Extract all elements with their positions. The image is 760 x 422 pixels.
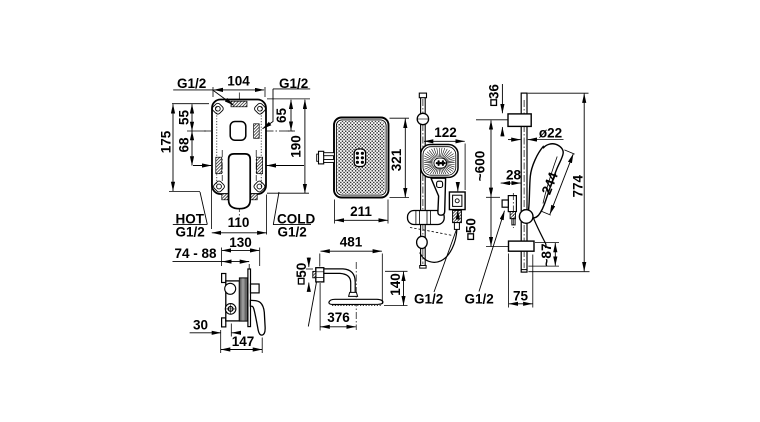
valve upper circle: [225, 283, 236, 294]
bottom-right port hatch: [251, 194, 257, 200]
bottom-left port hatch: [222, 194, 228, 200]
bottom mount bracket: [509, 241, 535, 251]
dim 68: [191, 131, 193, 166]
svg-text:140: 140: [388, 273, 403, 296]
inner dotted body line right: [260, 107, 262, 187]
dim 140: [385, 270, 408, 272]
svg-text:55: 55: [177, 110, 192, 126]
centerline horizontal ports: [212, 165, 266, 167]
svg-text:ø22: ø22: [539, 125, 562, 140]
right mid port thread hatch: [254, 124, 260, 139]
wall flange edge-on: [316, 268, 324, 282]
port centerline right: [255, 150, 257, 181]
dim 147: [220, 330, 222, 353]
svg-text:65: 65: [274, 108, 289, 124]
svg-text:130: 130: [229, 235, 252, 250]
dim 481: [319, 254, 321, 267]
leader line flange: [308, 282, 316, 327]
elbow tab: [502, 200, 508, 207]
center cap nozzles: [356, 152, 364, 164]
hose side: [531, 212, 546, 248]
svg-text:481: 481: [340, 235, 363, 250]
blade inner line: [543, 157, 557, 204]
wall bracket side tab: [317, 151, 335, 164]
dim 110: [211, 169, 213, 229]
holder clamp: [408, 211, 445, 225]
leader G1/2 top-left: [213, 90, 234, 105]
union nut: [453, 210, 462, 222]
bar top cap: [419, 93, 426, 98]
svg-text:104: 104: [227, 74, 250, 89]
head outer shell: [334, 118, 389, 198]
dim 75: [508, 254, 510, 308]
dim 244: [564, 150, 574, 154]
leader G1/2 right: [273, 88, 310, 90]
svg-text:~87: ~87: [539, 244, 554, 267]
cartridge hatched block: [239, 278, 247, 321]
svg-text:147: 147: [232, 334, 255, 349]
inner dotted body line left: [216, 107, 218, 187]
bar bottom cap: [420, 266, 426, 269]
svg-text:190: 190: [289, 135, 304, 158]
svg-text:30: 30: [193, 317, 208, 332]
hand shower handle: [431, 178, 446, 215]
svg-text:G1/2: G1/2: [414, 292, 443, 307]
lever handle: [229, 154, 251, 209]
dim 321: [390, 117, 410, 119]
dim 65: [267, 98, 310, 100]
svg-text:G1/2: G1/2: [177, 76, 206, 91]
dim 30: [190, 332, 213, 334]
dim 130: [221, 248, 223, 267]
svg-text:376: 376: [327, 310, 350, 325]
trim plate outline: [212, 100, 266, 195]
svg-text:G1/2: G1/2: [465, 292, 494, 307]
diverter knob: [230, 122, 246, 141]
svg-text:75: 75: [513, 289, 529, 304]
svg-text:175: 175: [159, 130, 174, 153]
overhead shower profile: [329, 299, 383, 304]
svg-text:~600: ~600: [473, 151, 488, 181]
nozzle dotted line: [332, 305, 381, 307]
dim 104: [212, 87, 214, 97]
dim 175: [172, 103, 209, 105]
spray face dots: [338, 121, 385, 194]
dim o22: [537, 139, 564, 141]
head centerline: [355, 262, 357, 330]
slide bar tube: [521, 93, 527, 272]
svg-text:36: 36: [487, 84, 502, 100]
arm nut: [349, 292, 358, 296]
hand shower head: [421, 145, 458, 178]
port centerline left: [221, 150, 223, 181]
leader G1/2 elbow: [479, 211, 505, 292]
dim square50 union: [457, 185, 459, 192]
svg-text:211: 211: [350, 204, 372, 219]
flow arrow right inlet: [267, 165, 304, 167]
mounting hole top-left: [211, 102, 224, 115]
dim 190: [267, 192, 309, 194]
hose: [420, 230, 457, 263]
dim ~87: [535, 242, 559, 244]
valve top mounting tab: [222, 274, 226, 283]
svg-text:50: 50: [464, 218, 479, 233]
svg-text:110: 110: [228, 215, 250, 230]
centerline horizontal through diverter: [204, 130, 293, 132]
dim 122: [464, 144, 466, 191]
svg-text:74 - 88: 74 - 88: [174, 246, 217, 261]
center cap: [354, 149, 365, 167]
mounting hole bottom-right: [253, 180, 266, 193]
dim square36: [501, 84, 503, 113]
diverter knob side: [251, 284, 260, 293]
dim square50 arm: [308, 258, 310, 267]
valve body: [226, 281, 240, 321]
dim ~600: [476, 119, 508, 121]
svg-text:G1/2: G1/2: [278, 225, 307, 240]
holder pivot ball: [519, 210, 533, 224]
valve bottom mounting tab: [222, 318, 226, 327]
lever handle side: [250, 300, 265, 335]
elbow stub: [512, 219, 515, 225]
leader HOT underline: [173, 223, 208, 225]
head inner rim: [336, 120, 386, 195]
dim 211: [334, 200, 336, 224]
leader COLD underline: [273, 224, 311, 226]
mounting hole bottom-left: [212, 180, 225, 193]
dim 28: [501, 182, 521, 184]
wall elbow body: [508, 196, 516, 212]
hand shower blade: [528, 144, 563, 218]
leader G1/2 handset: [434, 228, 457, 292]
svg-text:G1/2: G1/2: [176, 225, 205, 240]
dim 774: [528, 92, 589, 94]
svg-text:774: 774: [570, 174, 585, 197]
shower arm tube: [324, 269, 355, 293]
elbow nut hatched: [510, 212, 515, 219]
slide bar: [421, 98, 426, 266]
right inlet port thread hatch: [257, 157, 263, 174]
top port thread hatch: [231, 101, 247, 107]
trim plate edge-on: [248, 269, 251, 327]
wall union flange: [449, 192, 465, 210]
svg-text:68: 68: [177, 137, 192, 153]
dim 74-88: [173, 261, 250, 263]
svg-text:G1/2: G1/2: [279, 76, 308, 91]
bar end cap line: [521, 269, 527, 271]
top mount bracket: [508, 114, 531, 127]
svg-text:50: 50: [294, 263, 309, 278]
bar centerline: [523, 100, 525, 268]
left inlet port thread hatch: [216, 157, 222, 174]
svg-text:28: 28: [506, 168, 522, 183]
thread stub: [313, 271, 316, 277]
mounting hole top-right: [253, 102, 266, 115]
top holder knob: [417, 113, 428, 124]
hose dashed loop: [410, 228, 453, 236]
dim 55: [191, 104, 193, 131]
centerline vertical plate: [238, 93, 240, 220]
valve lower circle: [225, 304, 236, 315]
flow arrow left inlet: [193, 165, 211, 167]
face center band: [434, 158, 447, 168]
svg-text:321: 321: [389, 148, 404, 171]
slider ball: [417, 236, 428, 248]
svg-text:122: 122: [434, 125, 457, 140]
elbow centerline: [512, 193, 514, 228]
handle button: [437, 181, 443, 187]
dim 376: [319, 283, 321, 331]
arm centerline: [306, 268, 332, 270]
